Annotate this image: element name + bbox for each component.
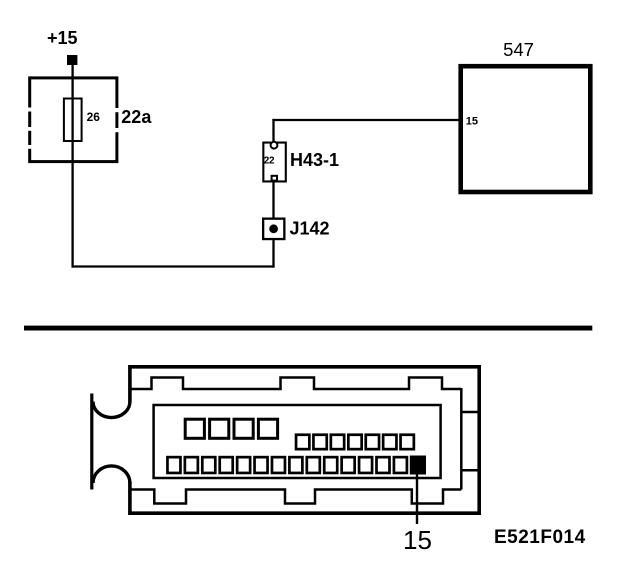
svg-text:15: 15 — [403, 525, 432, 555]
pin square B6 — [383, 435, 396, 449]
mounting tab left edge — [90, 394, 93, 490]
svg-text:E521F014: E521F014 — [494, 527, 586, 548]
pin square B3 — [331, 435, 344, 449]
svg-text:15: 15 — [466, 115, 478, 127]
svg-text:22: 22 — [264, 155, 275, 166]
wire: J142 to H43-1 — [272, 181, 274, 219]
pin square C13 — [376, 457, 389, 473]
pin square B1 — [296, 435, 309, 449]
housing inner bottom contour — [132, 490, 462, 504]
housing right lower jog — [461, 469, 478, 472]
pin square C2 — [185, 457, 198, 473]
pin square A3 — [234, 419, 253, 438]
junction J142 — [263, 219, 284, 239]
pin square B5 — [366, 435, 379, 449]
housing inner right edge — [460, 388, 463, 490]
svg-text:+15: +15 — [47, 28, 78, 48]
pin square B4 — [348, 435, 361, 449]
wire: H43-1 up — [272, 119, 274, 143]
pin square C14 — [394, 457, 407, 473]
svg-text:J142: J142 — [290, 219, 330, 239]
svg-text:22a: 22a — [121, 107, 152, 127]
wire: bottom horizontal run — [72, 265, 275, 267]
pin square B7 — [401, 435, 414, 449]
pin field frame — [154, 405, 441, 478]
mounting tab upper notch arc — [93, 402, 130, 418]
svg-text:H43-1: H43-1 — [290, 150, 339, 170]
pin 15 (filled square) — [410, 456, 426, 475]
pin 15 leader wire — [416, 474, 418, 524]
fuse 26 body — [64, 99, 82, 142]
wire: up into J142 — [272, 240, 274, 268]
pin square A1 — [185, 419, 204, 438]
pin square C4 — [220, 457, 233, 473]
pin square C6 — [255, 457, 268, 473]
fusebox 22a (dashed box) — [27, 78, 119, 162]
ECU 547 box — [461, 66, 591, 192]
pin square C5 — [237, 457, 250, 473]
pin square A4 — [258, 419, 277, 438]
pin square C11 — [342, 457, 355, 473]
mounting tab lower notch arc — [93, 466, 130, 483]
svg-text:26: 26 — [87, 110, 101, 124]
pin square C10 — [324, 457, 337, 473]
pin square C7 — [272, 457, 285, 473]
pin square C12 — [359, 457, 372, 473]
wire: horizontal run to ECU 547 pin 15 — [272, 119, 458, 121]
svg-text:547: 547 — [503, 39, 534, 60]
pin square C1 — [167, 457, 180, 473]
pin square C9 — [307, 457, 320, 473]
pin square B2 — [313, 435, 326, 449]
connector housing outer outline — [130, 367, 479, 513]
housing inner top contour — [132, 378, 462, 390]
wire: +15 terminal down through fusebox and fuse 26 — [71, 65, 73, 268]
separator line — [24, 326, 592, 331]
pin square C3 — [202, 457, 215, 473]
terminal +15 (filled square) — [67, 55, 77, 65]
pin square C8 — [289, 457, 302, 473]
pin square A2 — [210, 419, 229, 438]
housing right upper jog — [461, 411, 478, 414]
connector H43-1 — [263, 142, 285, 182]
